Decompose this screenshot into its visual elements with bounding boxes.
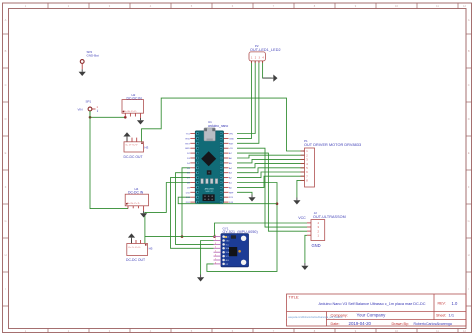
svg-text:IN+ IN− P+ P−: IN+ IN− P+ P− (127, 203, 141, 205)
svg-text:REF: REF (229, 192, 234, 194)
svg-text:AD0: AD0 (226, 259, 229, 262)
svg-text:Company:: Company: (331, 313, 348, 317)
H5 corner pin dot (145, 244, 147, 246)
ground symbol below J2 (301, 263, 308, 270)
svg-text:OUT-LED1_LED2: OUT-LED1_LED2 (250, 48, 281, 52)
wire H5 pin2 stub (135, 240, 137, 244)
module H5 DC-DC OUT body (127, 244, 148, 256)
svg-text:XCL: XCL (226, 256, 229, 258)
svg-text:A: A (468, 18, 470, 22)
svg-text:G: G (4, 219, 6, 223)
wire U1 D9 to H5 output (145, 183, 190, 244)
junction dot 5V rail left (181, 235, 184, 238)
svg-text:2019-04-20: 2019-04-20 (349, 321, 372, 326)
wire H4 pin1 stub (127, 206, 129, 209)
ground symbol below SP2 (79, 69, 86, 76)
J2 pin numbers (318, 221, 320, 237)
H3 corner pin dot (141, 142, 143, 144)
svg-text:OUT-ULTRASSOM: OUT-ULTRASSOM (313, 215, 346, 219)
svg-text:Date:: Date: (331, 322, 340, 326)
svg-text:TITLE:: TITLE: (289, 295, 300, 299)
ground symbol below GY1 (197, 275, 204, 282)
wire U1 D7 to GY1 SCL (176, 173, 214, 245)
H2 corner pin dot (123, 111, 125, 113)
svg-text:DC-DC IN: DC-DC IN (128, 191, 144, 195)
svg-text:INT: INT (226, 264, 229, 266)
pin SP2 GND-Bat circle (80, 60, 84, 64)
wire U1 A6 to P1 pin2 (237, 155, 305, 158)
wire U1 D8 to GY1 SDA (171, 178, 214, 249)
svg-text:VIN: VIN (78, 107, 83, 111)
connector J2 body (311, 220, 325, 241)
module H3 DC-DC OUT body (124, 142, 144, 152)
svg-text:DC-DC OUT: DC-DC OUT (126, 258, 145, 262)
ic GY1 GY-521 MPU-6050 board (221, 234, 249, 267)
U1 pin name labels (185, 134, 234, 205)
wire U1 D6 to 5V rail (182, 168, 190, 237)
svg-text:H5: H5 (149, 246, 153, 250)
title block table (287, 294, 467, 326)
svg-text:Drawn By:: Drawn By: (392, 322, 410, 326)
wire H4 pin4 stub to ground (143, 206, 145, 211)
svg-text:B: B (468, 49, 470, 53)
svg-text:C: C (5, 83, 7, 87)
U1 pin stubs (190, 134, 228, 203)
svg-text:B: B (5, 49, 7, 53)
svg-text:6: 6 (215, 255, 216, 257)
svg-text:O+ O− V+ V−: O+ O− V+ V− (128, 247, 141, 249)
ground symbol below P1 (293, 198, 300, 205)
svg-text:REV:: REV: (438, 302, 446, 306)
wire U1 GND to ground flag right (237, 192, 252, 194)
wire GY1 GND to ground flag (201, 241, 214, 275)
svg-text:SCL: SCL (226, 244, 229, 246)
wire H5 pin1 stub (131, 239, 133, 243)
svg-text:+5V: +5V (229, 148, 233, 150)
wire U1 D12 bottom net (178, 197, 277, 204)
GY1 pin stubs (214, 235, 222, 264)
svg-text:1: 1 (215, 235, 216, 237)
junction dot A1-INT wire crossing bottom rail (276, 202, 279, 205)
P1 pin stubs (301, 151, 305, 180)
svg-text:DC-DC IN: DC-DC IN (127, 96, 143, 100)
P2 pin stubs (252, 61, 263, 63)
H4 corner pin dot (126, 203, 128, 205)
wire U1 A1 to GY1 INT (207, 183, 277, 272)
svg-text:3: 3 (215, 243, 216, 245)
svg-text:H: H (5, 253, 7, 257)
pin SP1 VIN circle (88, 107, 92, 111)
junction dot 5V rail mid (213, 235, 216, 238)
svg-text:Arduino Nano V3 Self Balance U: Arduino Nano V3 Self Balance Ultrasso c_… (319, 302, 426, 306)
wire H2 pin4 stub to ground (140, 113, 142, 118)
wire U1 A0 to P1 pin7 (237, 176, 305, 187)
svg-text:H: H (468, 253, 470, 257)
wire H5 pin3 stub (140, 240, 142, 244)
svg-text:GND: GND (185, 148, 190, 150)
wire P1 pin8 to ground flag (297, 180, 305, 197)
svg-text:NANO V3: NANO V3 (205, 190, 213, 193)
module H4 DC-DC IN body (125, 194, 148, 206)
wire U1 A3 to P1 pin5 (237, 168, 305, 173)
wire U1 A4 to P1 pin4 (237, 164, 305, 168)
svg-text:IN+ IN− P+ P−: IN+ IN− P+ P− (124, 111, 138, 113)
vcc arrow above H3 (123, 132, 130, 142)
svg-text:7: 7 (215, 258, 216, 260)
wire P2 pin3 to U1 RST (237, 61, 259, 143)
wire VIN rail down to H4 pin1 (90, 117, 128, 208)
svg-text:1/1: 1/1 (449, 312, 455, 317)
junction dot at H2 pin1 (124, 116, 127, 119)
wire U1 5V to J2 pin3 (237, 148, 307, 227)
wire U1 A5 to P1 pin3 (237, 159, 305, 163)
connector P1 body (305, 148, 315, 187)
svg-text:D: D (468, 117, 470, 121)
wire H3 pin1 stub (126, 138, 128, 142)
svg-text:H3: H3 (145, 146, 149, 150)
ground symbol below H4 (140, 211, 147, 218)
P1 pin numbers (306, 149, 308, 182)
ic U1 arduino_nano board (195, 128, 223, 204)
svg-text:2: 2 (215, 239, 216, 241)
wire H4 pin2 stub (132, 206, 134, 209)
svg-text:1 2 3 4: 1 2 3 4 (251, 56, 265, 59)
title block link cell white patch (287, 319, 326, 320)
svg-text:G: G (468, 219, 470, 223)
wire H3 pin2 stub (131, 138, 133, 142)
wire H2 pin3 stub (134, 113, 136, 116)
svg-text:RobertoCarlosAlvarenga: RobertoCarlosAlvarenga (414, 322, 452, 326)
wire H4 pin3 stub (137, 206, 139, 209)
vcc arrow above H5 (128, 233, 135, 243)
svg-text:GND-Bat: GND-Bat (87, 54, 99, 58)
wire H3 output to P1 pin1 (142, 98, 305, 151)
connector P2 body (249, 52, 265, 61)
junction dot at P1 pin1 (304, 150, 306, 152)
junction dot at SP1 rail (89, 116, 92, 119)
svg-text:arduino_nano: arduino_nano (208, 124, 228, 128)
svg-text:1.0: 1.0 (452, 301, 458, 306)
J2 pin stubs (307, 223, 311, 235)
wire P2 pin2 to U1 GND (237, 61, 255, 134)
wire 5V rail to GY1 VCC (145, 236, 214, 238)
wire H3 pin3 stub (136, 138, 138, 142)
svg-text:Sheet:: Sheet: (436, 313, 446, 317)
svg-text:GND: GND (312, 243, 321, 248)
svg-text:C: C (468, 83, 470, 87)
wire H2 pin2 stub (129, 113, 131, 116)
svg-text:4: 4 (215, 247, 216, 249)
ground symbol right of P2 (263, 75, 278, 82)
svg-text:SP1: SP1 (86, 100, 92, 104)
svg-text:Your Company: Your Company (357, 313, 387, 318)
wire J2 pin1 to ground flag (305, 235, 307, 263)
wire SP1 to H2 pin1 rail (90, 111, 125, 117)
wire P2 pin4 to ground flag (263, 61, 272, 78)
svg-text:5: 5 (215, 251, 216, 253)
svg-text:VCC: VCC (298, 216, 306, 220)
pin SP1 stub right (92, 108, 96, 110)
wire H2 pin1 stub (124, 113, 126, 117)
svg-text:8: 8 (215, 262, 216, 264)
svg-text:OUT DRIVER MOTOR DRV8833: OUT DRIVER MOTOR DRV8833 (304, 143, 361, 147)
wire U1 A2 to P1 pin6 (237, 172, 305, 178)
wire P2 pin1 to U1 VIN (237, 61, 252, 138)
svg-text:A: A (5, 18, 7, 22)
svg-text:GY-521_(MPU-6050): GY-521_(MPU-6050) (223, 230, 258, 234)
svg-text:D: D (5, 117, 7, 121)
svg-text:GND: GND (229, 138, 234, 140)
svg-text:E: E (5, 151, 7, 155)
svg-text:RST: RST (229, 143, 234, 145)
svg-text:ARDUINO: ARDUINO (205, 188, 215, 191)
ground symbol below H2 (137, 118, 144, 125)
svg-text:RST: RST (185, 143, 190, 145)
svg-text:O+ O− V+ V−: O+ O− V+ V− (126, 145, 139, 147)
svg-text:VIN: VIN (229, 134, 233, 136)
svg-text:E: E (468, 151, 470, 155)
wire U1 A7 to J2 pin2 (237, 153, 307, 231)
svg-text:↧: ↧ (96, 109, 99, 113)
svg-text:DC-DC OUT: DC-DC OUT (124, 155, 143, 159)
wire 5V rail up to J2 pin4 VCC (215, 223, 308, 237)
ground symbol below U1 GND (248, 195, 255, 202)
module H2 DC-DC IN body (122, 100, 144, 114)
